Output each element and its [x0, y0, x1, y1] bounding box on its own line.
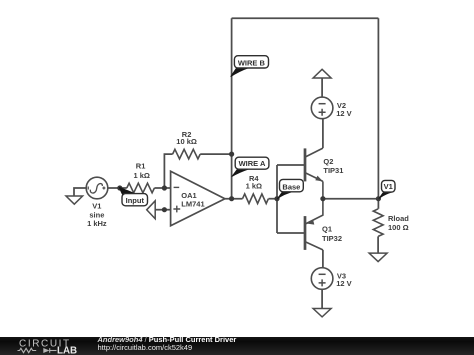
svg-text:TIP31: TIP31: [323, 166, 343, 175]
resistor R1: [127, 183, 155, 193]
node label WIRE B: [230, 56, 268, 77]
wire Q1 collector to V3: [322, 250, 324, 268]
transistor Q1 (PNP TIP32): [305, 199, 323, 250]
node dot base: [274, 196, 279, 201]
logo resistor+diode glyph: [18, 348, 57, 353]
ground (flipped up, above V2): [313, 69, 331, 78]
svg-text:1 kΩ: 1 kΩ: [246, 182, 262, 191]
footer bar: [0, 337, 474, 355]
wire load node to Rload: [377, 199, 379, 209]
svg-text:Base: Base: [282, 182, 300, 191]
wire base vertical: [276, 165, 278, 233]
wire V3 to ground: [321, 290, 323, 309]
voltage source V2: [311, 97, 333, 119]
node dot emitters: [320, 196, 325, 201]
transistor Q2 (NPN TIP31): [305, 148, 323, 199]
wire: [154, 187, 170, 189]
svg-text:Rload: Rload: [388, 214, 409, 223]
wire: [225, 198, 243, 200]
resistor R2: [173, 149, 201, 159]
svg-text:R1: R1: [136, 162, 146, 171]
ground (left, at V1): [66, 196, 83, 204]
op-amp OA1: [171, 171, 225, 226]
svg-text:WIRE B: WIRE B: [238, 59, 266, 68]
svg-text:LAB: LAB: [57, 346, 77, 355]
svg-text:Input: Input: [126, 196, 145, 205]
wire Rload to ground: [377, 236, 379, 253]
ground (below Rload): [369, 253, 387, 262]
svg-text:10 kΩ: 10 kΩ: [176, 137, 197, 146]
node label Input: [119, 187, 148, 206]
svg-text:TIP32: TIP32: [322, 234, 342, 243]
svg-text:12 V: 12 V: [336, 279, 351, 288]
node dot load: [376, 196, 381, 201]
Q1 emitter arrow: [306, 220, 314, 225]
svg-text:V1: V1: [384, 182, 393, 191]
svg-text:12 V: 12 V: [336, 109, 351, 118]
wire WIRE A vertical: [231, 18, 233, 198]
node label Base: [277, 179, 303, 199]
wire: [74, 188, 86, 196]
svg-text:1 kHz: 1 kHz: [87, 219, 107, 228]
resistor Rload (vertical): [373, 209, 383, 237]
node dot op-amp output: [229, 196, 234, 201]
node label WIRE A: [231, 157, 269, 177]
svg-text:Q2: Q2: [323, 157, 333, 166]
svg-text:OA1: OA1: [181, 191, 196, 200]
voltage source V3: [311, 268, 333, 290]
wire V2 to flipped ground: [321, 78, 323, 97]
svg-text:1 kΩ: 1 kΩ: [133, 171, 149, 180]
svg-text:WIRE A: WIRE A: [239, 159, 266, 168]
ground (below V3): [313, 309, 331, 317]
node dot noninverting input: [162, 207, 167, 212]
wire emitter node to load: [323, 198, 379, 200]
node dot input: [117, 185, 122, 190]
wire: [155, 209, 170, 211]
wire Q2 base stub: [277, 164, 305, 166]
node dot R2 right: [229, 152, 234, 157]
wire Q2 collector to V2: [322, 119, 324, 148]
wire Q1 base stub: [277, 232, 305, 234]
ground (at op-amp + input, rotated left): [147, 201, 156, 219]
svg-text:Q1: Q1: [322, 225, 332, 234]
wire: [200, 153, 231, 155]
wire right vertical: [377, 18, 379, 198]
node dot inverting input: [162, 185, 167, 190]
wire: [164, 154, 172, 188]
resistor R4: [243, 194, 269, 204]
node label V1 flag: [378, 180, 395, 198]
Q2 emitter arrow: [315, 176, 323, 182]
wire: [108, 187, 127, 189]
svg-text:V1: V1: [92, 202, 101, 211]
svg-text:http://circuitlab.com/ck52k49: http://circuitlab.com/ck52k49: [98, 343, 193, 352]
wire: [269, 198, 278, 200]
wire WIRE B top: [232, 17, 379, 19]
voltage source V1 (sine): [86, 177, 108, 199]
svg-text:LM741: LM741: [181, 200, 204, 209]
svg-text:100 Ω: 100 Ω: [388, 223, 409, 232]
